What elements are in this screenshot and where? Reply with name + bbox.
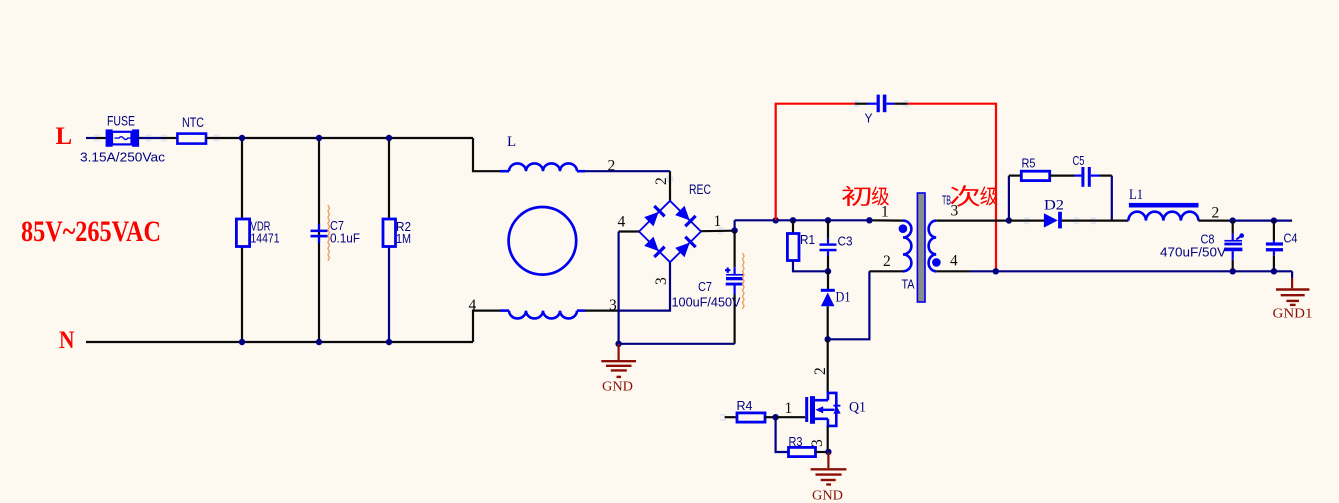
node junction dots R2 branch <box>386 135 392 141</box>
inductor L1 core bar <box>1129 203 1199 208</box>
svg-text:C5: C5 <box>1073 153 1085 168</box>
svg-text:L: L <box>507 134 516 150</box>
wire to transformer pin 2 <box>828 271 870 339</box>
wire C7 bulk top <box>733 231 735 268</box>
resistor R5 <box>1021 171 1049 180</box>
svg-text:2: 2 <box>812 367 829 375</box>
capacitor C8 470uF/50V <box>1224 240 1242 242</box>
choke core circle <box>509 207 577 275</box>
svg-text:GND: GND <box>812 489 843 503</box>
node dot bridge output <box>731 227 737 233</box>
capacitor C7 0.1uF <box>311 230 328 233</box>
wire C3 bottom stub <box>827 251 829 256</box>
transformer secondary polarity dot <box>932 258 941 267</box>
svg-text:R1: R1 <box>800 232 815 247</box>
wire R1 top stub <box>792 220 794 233</box>
marker orange zigzag C7 bulk <box>743 253 745 309</box>
wire DC+ rail <box>735 219 870 221</box>
svg-text:Q1: Q1 <box>849 400 866 416</box>
svg-text:GND: GND <box>602 380 633 395</box>
wire C8 top <box>1232 221 1234 234</box>
wire C4 bottom <box>1273 256 1275 271</box>
thermistor NTC <box>177 134 206 144</box>
svg-text:NTC: NTC <box>182 115 204 130</box>
wire GND1 stub <box>1291 271 1293 277</box>
node dot snubber branch <box>1006 217 1012 223</box>
wire Q1 source <box>827 426 829 452</box>
svg-text:14471: 14471 <box>251 231 280 246</box>
node dot D1-drain-xfmr <box>825 336 831 342</box>
transistor Q1 MOSFET <box>805 397 808 422</box>
wire output rail <box>1233 220 1292 222</box>
resistor R2 <box>383 219 396 247</box>
svg-text:0.1uF: 0.1uF <box>330 231 360 246</box>
svg-text:D1: D1 <box>836 290 851 306</box>
label chinese secondary 次级 <box>951 185 998 207</box>
svg-text:3: 3 <box>809 439 826 447</box>
svg-text:470uF/50V: 470uF/50V <box>1160 245 1226 260</box>
wire snubber left vertical <box>1008 176 1010 221</box>
diode D1 (zener) <box>821 289 835 292</box>
svg-text:3: 3 <box>951 203 959 220</box>
label chinese primary 初级 <box>842 186 889 206</box>
transformer TB secondary winding <box>929 221 937 272</box>
svg-text:85V~265VAC: 85V~265VAC <box>21 215 161 248</box>
capacitor C5 <box>1075 175 1082 177</box>
svg-text:3: 3 <box>653 277 670 285</box>
svg-text:4: 4 <box>950 253 958 270</box>
resistor R4 <box>737 413 765 422</box>
varistor VDR <box>236 219 249 247</box>
fuse FUSE <box>112 132 132 145</box>
node dots on DC rail <box>773 217 779 223</box>
wire NTC to junction <box>206 137 473 139</box>
wire VDR branch <box>241 138 243 342</box>
wire GND rail <box>619 343 735 345</box>
wire N rail <box>86 341 473 343</box>
node dots secondary bottom <box>993 268 999 274</box>
svg-text:4: 4 <box>618 214 626 231</box>
wire red Y-cap left <box>776 104 855 221</box>
capacitor C7 100uF/450V <box>733 267 735 274</box>
wire C4 top <box>1273 221 1275 241</box>
svg-text:1: 1 <box>881 204 889 221</box>
svg-text:C7: C7 <box>698 279 712 294</box>
ghost marks L rail <box>94 135 100 137</box>
svg-text:100uF/450V: 100uF/450V <box>672 295 741 310</box>
wire snubber top left <box>1009 175 1021 177</box>
node dot source <box>825 449 831 455</box>
transformer primary polarity dot <box>899 224 908 233</box>
wire secondary bottom rail <box>970 270 1292 272</box>
node dot GND junction <box>615 341 621 347</box>
wire R4 left stub <box>725 416 737 418</box>
ghost marks D2 wire <box>1024 217 1030 219</box>
wire black stub left of Y cap <box>855 103 867 105</box>
wire L rail to choke <box>473 138 500 171</box>
wire jog to DC rail <box>733 220 735 230</box>
wire D2 to L1 <box>1062 220 1129 222</box>
svg-text:GND1: GND1 <box>1273 307 1313 322</box>
wire gate <box>776 416 806 418</box>
inductor L1 winding <box>1128 212 1198 221</box>
bridge rectifier REC outline <box>639 201 701 262</box>
svg-text:N: N <box>59 327 75 354</box>
wire DC+ rail to transformer <box>869 219 903 222</box>
wire choke bottom out <box>585 310 619 312</box>
transformer core <box>917 193 925 302</box>
ground GND1 <box>1291 278 1293 289</box>
marker orange zigzag C7 <box>328 205 330 261</box>
capacitor C4 <box>1266 242 1283 245</box>
wire snubber right vertical <box>1111 176 1113 221</box>
wire secondary pin4 out <box>936 270 970 272</box>
resistor R3 <box>789 447 816 456</box>
wire choke top to bridge <box>585 170 670 172</box>
svg-text:REC: REC <box>689 182 711 197</box>
capacitor C3 <box>820 243 837 245</box>
svg-text:R4: R4 <box>737 398 753 413</box>
svg-text:L1: L1 <box>1129 187 1143 203</box>
resistor R1 <box>787 234 799 261</box>
wire C3 top stub <box>827 220 829 239</box>
ghost marks Y cap <box>854 100 860 102</box>
capacitor Y <box>867 103 877 105</box>
inductor L choke bottom winding <box>500 309 509 312</box>
wire R5 to C5 <box>1050 175 1075 177</box>
ground GND primary <box>617 344 619 360</box>
wire fuse to NTC <box>139 137 141 139</box>
wire bridge left to down rail <box>619 230 639 232</box>
wire secondary pin3 out <box>936 220 1009 222</box>
svg-text:R3: R3 <box>789 434 803 449</box>
svg-text:1: 1 <box>785 400 793 417</box>
inductor L choke top winding <box>500 170 509 173</box>
wire L1 to output <box>1198 220 1232 222</box>
node dot R1-C3-D1 <box>825 268 831 274</box>
wire transformer pin 2 stub <box>869 270 903 272</box>
wire bridge negative rail <box>617 232 619 344</box>
wire R4 to gate node <box>765 416 776 418</box>
svg-text:2: 2 <box>883 253 891 270</box>
wire bridge right pin <box>701 230 735 233</box>
diode bridge upper-left <box>644 206 665 227</box>
svg-text:Y: Y <box>865 111 873 126</box>
svg-text:1M: 1M <box>396 231 411 246</box>
svg-text:D2: D2 <box>1044 198 1064 214</box>
svg-text:L: L <box>56 123 73 150</box>
wire C7 branch <box>318 138 320 342</box>
svg-text:R5: R5 <box>1022 156 1036 171</box>
svg-text:4: 4 <box>469 297 477 314</box>
diode D2 <box>1044 213 1058 227</box>
wire Q1 drain <box>827 339 829 393</box>
svg-text:2: 2 <box>653 177 670 185</box>
wire D1 anode <box>827 271 829 289</box>
svg-text:TA: TA <box>902 277 915 292</box>
wire D1 cathode <box>827 306 829 339</box>
ghost mark bridge out <box>718 227 724 229</box>
svg-text:3.15A/250Vac: 3.15A/250Vac <box>80 150 165 165</box>
wire N rail to choke <box>473 311 500 342</box>
wire to D2 <box>1009 220 1045 222</box>
wire R3 to source node <box>816 451 829 453</box>
ghost mark bridge top pin <box>667 176 669 182</box>
wire C8 bottom <box>1232 260 1234 272</box>
transformer TA primary winding <box>903 221 911 272</box>
wire C7 bulk bottom <box>733 295 735 344</box>
svg-text:C4: C4 <box>1284 231 1298 246</box>
wire red Y-cap right <box>908 104 996 272</box>
wire R2 branch <box>388 138 390 219</box>
diode bridge lower-left <box>644 236 665 257</box>
node junction dots C7 branch <box>316 135 322 141</box>
diode bridge lower-right <box>675 237 696 258</box>
node dots output rail <box>1230 217 1236 223</box>
wire L input <box>86 137 96 139</box>
node junction dots VDR branch <box>239 135 245 141</box>
wire C5 right <box>1100 175 1112 177</box>
node dot gate <box>772 414 778 420</box>
wire bridge bottom pin <box>619 262 670 310</box>
ghost mark R4 wire <box>720 414 726 416</box>
svg-text:C3: C3 <box>838 234 853 249</box>
wire black stub right of Y cap <box>894 103 908 105</box>
wire gate node down to R3 <box>776 417 789 452</box>
diode bridge upper-right <box>675 205 696 226</box>
wire R1 bottom jog <box>793 261 828 272</box>
ground GND source <box>827 452 829 468</box>
svg-text:FUSE: FUSE <box>107 114 135 129</box>
svg-text:2: 2 <box>1212 205 1220 222</box>
